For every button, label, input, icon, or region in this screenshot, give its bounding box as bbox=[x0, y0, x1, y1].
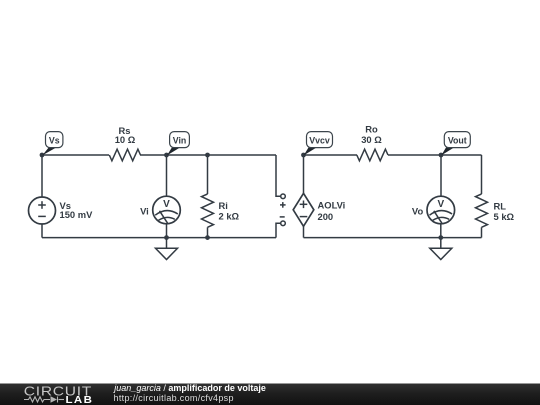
junction dots bbox=[40, 153, 444, 240]
junction Vi bottom bbox=[164, 235, 169, 240]
svg-text:http://circuitlab.com/cfv4psp: http://circuitlab.com/cfv4psp bbox=[114, 393, 234, 403]
node flag Vvcv bbox=[304, 132, 333, 156]
node flag Vout bbox=[441, 132, 470, 156]
junction Ri bottom bbox=[205, 235, 210, 240]
resistor Rs bbox=[109, 149, 140, 161]
terminal - (left circuit output) bbox=[281, 221, 286, 226]
wire bottom-right rail bbox=[304, 237, 482, 239]
junction Ri top bbox=[205, 153, 210, 158]
wire bottom-left rail bbox=[42, 237, 276, 239]
node flag Vs bbox=[42, 132, 63, 156]
node Vvcv dot bbox=[301, 153, 306, 158]
terminal + (left circuit output) bbox=[281, 194, 286, 199]
svg-text:Ri: Ri bbox=[219, 200, 228, 211]
node flag Vin bbox=[167, 132, 189, 156]
wire Vo meter bottom stem bbox=[440, 224, 442, 238]
node Vs dot bbox=[40, 153, 45, 158]
wire dependent source top stem bbox=[303, 155, 305, 193]
svg-text:10 Ω: 10 Ω bbox=[115, 134, 136, 145]
svg-text:Vo: Vo bbox=[412, 205, 424, 216]
wire left-circuit right edge to output terminals bbox=[276, 155, 281, 238]
wire Vi meter top stem bbox=[166, 155, 168, 196]
voltage source Vs bbox=[29, 197, 56, 224]
wire RL top stem bbox=[481, 155, 483, 194]
node Vin dot bbox=[164, 153, 169, 158]
wire dependent source bottom stem bbox=[303, 226, 305, 237]
component labels bbox=[60, 124, 515, 223]
CircuitLab logo bbox=[24, 385, 93, 405]
svg-text:V: V bbox=[163, 199, 170, 210]
resistor Ro bbox=[357, 149, 388, 161]
resistor RL bbox=[476, 194, 488, 227]
resistor Ri bbox=[202, 194, 214, 227]
node Vout dot bbox=[439, 153, 444, 158]
wire Ri top stem bbox=[207, 155, 209, 194]
svg-text:2 kΩ: 2 kΩ bbox=[219, 210, 240, 221]
svg-text:200: 200 bbox=[318, 211, 334, 222]
ground (left) bbox=[156, 238, 178, 260]
svg-text:Vvcv: Vvcv bbox=[309, 135, 330, 145]
svg-text:V: V bbox=[437, 199, 444, 210]
footer text bbox=[113, 383, 266, 403]
voltmeter Vi bbox=[153, 196, 181, 224]
ground (right) bbox=[430, 238, 452, 260]
wire from Rs through Vin node to right edge bbox=[140, 154, 276, 156]
junction Vo bottom bbox=[438, 235, 443, 240]
svg-text:5 kΩ: 5 kΩ bbox=[494, 211, 515, 222]
svg-text:LAB: LAB bbox=[66, 395, 94, 405]
wire Vs source top stem bbox=[41, 155, 43, 197]
svg-text:Vi: Vi bbox=[140, 205, 149, 216]
wire Ri bottom stem bbox=[207, 227, 209, 237]
svg-text:juan_garcia / amplificador de: juan_garcia / amplificador de voltaje bbox=[113, 383, 266, 393]
wire top-left from Vs node to Rs bbox=[42, 154, 109, 156]
wire Vo meter top stem bbox=[440, 155, 442, 196]
svg-text:Vin: Vin bbox=[173, 135, 187, 145]
wire Ro to RL top bbox=[388, 154, 482, 156]
wire Vi meter bottom stem bbox=[166, 224, 168, 238]
wire Vvcv node to Ro bbox=[304, 154, 358, 156]
svg-text:Ro: Ro bbox=[365, 124, 378, 135]
wire RL bottom stem bbox=[481, 227, 483, 237]
wire Vs source bottom stem bbox=[41, 224, 43, 238]
voltmeter Vo bbox=[427, 196, 455, 224]
dependent source Vvcv (diamond) bbox=[293, 193, 314, 226]
svg-text:150 mV: 150 mV bbox=[60, 209, 94, 220]
svg-text:30 Ω: 30 Ω bbox=[361, 134, 382, 145]
polarity marks at terminals bbox=[280, 202, 286, 217]
svg-text:AOLVi: AOLVi bbox=[318, 200, 346, 211]
svg-text:RL: RL bbox=[494, 200, 507, 211]
svg-text:Vs: Vs bbox=[49, 135, 60, 145]
svg-text:Vout: Vout bbox=[448, 135, 467, 145]
